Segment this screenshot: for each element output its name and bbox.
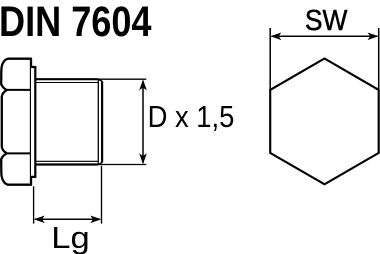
head facet line lower	[7, 152, 31, 154]
Lg dimension line	[35, 218, 100, 220]
D dimension line	[142, 81, 144, 163]
svg-text:Lg: Lg	[51, 220, 90, 254]
SW dimension line	[272, 35, 378, 37]
Lg dimension extension line right	[101, 166, 103, 224]
thread outer line top	[35, 78, 98, 80]
hexagon (front view)	[270, 59, 379, 185]
hex head (side view outline)	[1, 59, 31, 185]
thread outer line bottom	[35, 163, 98, 165]
Lg dimension extension line left	[33, 186, 35, 223]
plug end face	[101, 81, 103, 162]
chamfer edge top	[98, 79, 102, 81]
SW arrow left	[270, 33, 281, 41]
D dimension extension line top	[98, 78, 146, 80]
thread root line bottom	[35, 160, 98, 162]
chamfer edge bottom	[98, 163, 102, 165]
svg-text:D x 1,5: D x 1,5	[148, 101, 235, 134]
SW extension line right	[378, 28, 380, 90]
svg-text:DIN 7604: DIN 7604	[0, 0, 152, 46]
D dimension arrow up	[139, 79, 147, 90]
SW arrow right	[368, 33, 379, 41]
head facet line upper	[7, 89, 31, 91]
Lg arrow right	[90, 216, 101, 224]
thread chamfer start line	[97, 79, 99, 164]
D dimension extension line bottom	[98, 164, 146, 166]
D dimension arrow down	[139, 153, 147, 164]
SW extension line left	[269, 28, 271, 90]
svg-text:SW: SW	[305, 5, 348, 37]
collar flange	[31, 67, 35, 177]
thread root line top	[35, 82, 98, 84]
Lg arrow left	[34, 216, 45, 224]
